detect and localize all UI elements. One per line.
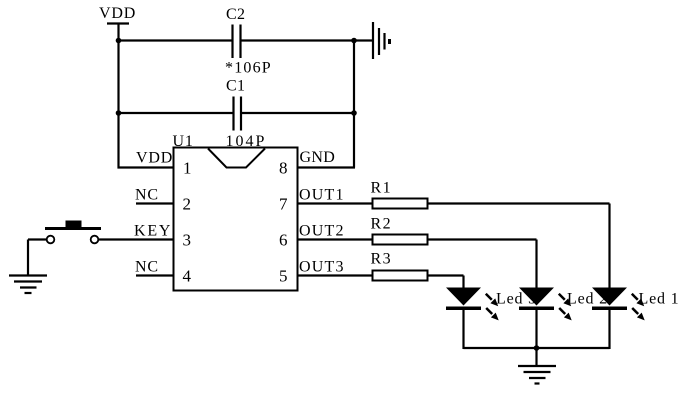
svg-text:OUT2: OUT2 [299, 223, 345, 240]
svg-text:VDD: VDD [99, 5, 136, 22]
svg-text:VDD: VDD [136, 150, 173, 167]
svg-text:U1: U1 [173, 133, 194, 150]
svg-text:KEY: KEY [134, 223, 172, 240]
svg-text:Led 1: Led 1 [639, 291, 680, 308]
svg-text:OUT3: OUT3 [299, 259, 345, 276]
svg-text:R3: R3 [371, 251, 393, 268]
svg-text:5: 5 [279, 267, 288, 286]
svg-text:Led 2: Led 2 [567, 291, 608, 308]
svg-text:104P: 104P [226, 133, 267, 150]
svg-text:C1: C1 [226, 78, 245, 95]
svg-text:R2: R2 [371, 216, 393, 233]
svg-text:GND: GND [300, 149, 336, 166]
svg-text:1: 1 [183, 159, 192, 178]
svg-text:6: 6 [279, 231, 288, 250]
svg-text:NC: NC [135, 187, 159, 204]
svg-text:Led 3: Led 3 [496, 291, 537, 308]
svg-text:3: 3 [183, 231, 192, 250]
svg-text:7: 7 [279, 195, 288, 214]
svg-text:2: 2 [183, 195, 192, 214]
svg-text:OUT1: OUT1 [299, 187, 345, 204]
svg-text:8: 8 [279, 159, 288, 178]
svg-text:4: 4 [183, 267, 192, 286]
svg-text:NC: NC [135, 259, 159, 276]
svg-text:R1: R1 [371, 180, 393, 197]
svg-text:C2: C2 [226, 6, 245, 23]
svg-text:*106P: *106P [225, 60, 272, 77]
